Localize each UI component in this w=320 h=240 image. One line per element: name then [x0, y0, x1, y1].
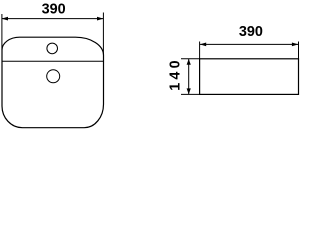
- overflow hole small circle: [47, 43, 58, 54]
- height dim extension top: [181, 58, 200, 60]
- left dim extension line right: [102, 13, 104, 55]
- basin top view outline: [2, 37, 104, 128]
- left dim arrowhead left: [2, 17, 8, 21]
- left dim arrowhead right: [97, 17, 103, 21]
- svg-text:140: 140: [168, 57, 184, 91]
- svg-text:390: 390: [42, 2, 66, 18]
- basin deck line: [2, 60, 104, 62]
- side view rectangle: [200, 59, 299, 95]
- right dim arrowhead right: [292, 43, 298, 47]
- right dim extension tick right: [298, 42, 300, 59]
- left dim line 390: [2, 18, 103, 20]
- height dim extension bottom: [181, 93, 200, 95]
- right dim extension tick left: [199, 42, 201, 59]
- height dim line 140: [188, 59, 190, 94]
- faucet hole large circle: [47, 70, 60, 83]
- height dim arrowhead up: [187, 59, 191, 65]
- right dim arrowhead left: [200, 43, 206, 47]
- right dim line 390: [200, 43, 298, 45]
- height dim arrowhead down: [187, 88, 191, 94]
- left dim extension line left: [1, 14, 3, 50]
- svg-text:390: 390: [239, 24, 263, 40]
